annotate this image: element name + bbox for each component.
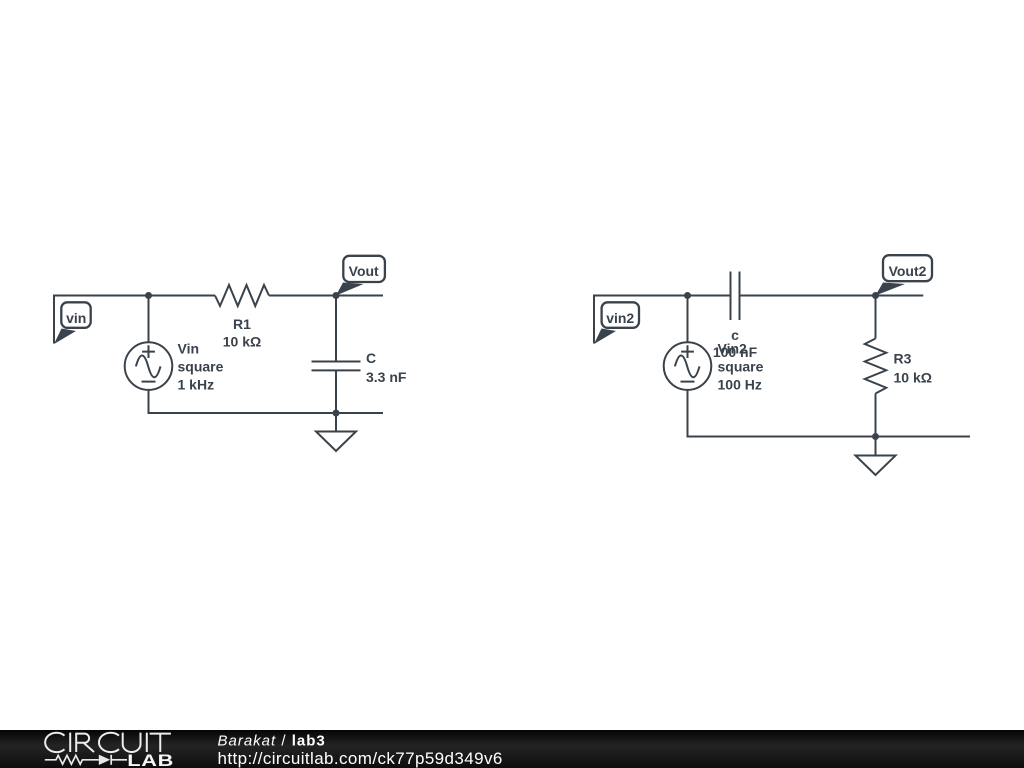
svg-text:Vin2: Vin2	[718, 340, 748, 356]
svg-text:1 kHz: 1 kHz	[178, 377, 215, 393]
svg-text:LAB: LAB	[127, 752, 174, 768]
capacitor C plates	[312, 362, 361, 371]
flag vin2 bubble	[602, 302, 639, 328]
ground right triangle	[856, 456, 896, 476]
logo letter U	[123, 733, 141, 752]
voltage source V2 plus sign	[681, 345, 694, 358]
footer bar	[0, 730, 1024, 768]
voltage source V2 sine wave	[675, 356, 700, 378]
resistor R3 top lead	[875, 296, 877, 339]
logo letter I2	[146, 733, 148, 752]
node junction Vout2 C2-R3	[872, 292, 879, 299]
logo letter C	[45, 733, 64, 752]
wire left circuit top left segment with vin stub	[54, 296, 215, 344]
logo diode cathode bar	[110, 755, 112, 765]
wire right circuit top left segment with vin2 stub	[594, 296, 731, 344]
logo diode triangle	[99, 755, 110, 765]
svg-text:100 Hz: 100 Hz	[718, 377, 762, 393]
svg-text:3.3 nF: 3.3 nF	[366, 369, 407, 385]
svg-text:vin2: vin2	[606, 310, 634, 326]
logo letter C2	[99, 733, 119, 752]
wire right circuit top right segment	[740, 295, 924, 297]
voltage source V1 minus sign	[142, 381, 156, 383]
node junction Vout R1-C	[333, 292, 340, 299]
voltage source V1 body	[125, 342, 173, 390]
logo letter T	[150, 734, 171, 752]
flag vin bubble	[61, 302, 90, 328]
voltage source V2 minus sign	[681, 381, 695, 383]
ground right stub	[875, 437, 877, 456]
svg-text:10 kΩ: 10 kΩ	[223, 334, 261, 350]
flag Vout bubble	[343, 256, 385, 282]
logo letter I	[69, 733, 71, 752]
wire left circuit bottom	[149, 390, 384, 413]
voltage source V2 body	[664, 342, 712, 390]
resistor R3 bottom lead	[875, 394, 877, 437]
logo wire to LAB	[111, 759, 127, 761]
node junction vin2-V2-C2	[684, 292, 691, 299]
wire left circuit top right segment	[269, 295, 383, 297]
ground left stub	[335, 413, 337, 432]
flag Vout2 pointer	[876, 283, 906, 296]
capacitor C bottom lead	[335, 370, 337, 413]
resistor R3	[865, 339, 887, 394]
logo resistor symbol	[45, 755, 99, 764]
ground left triangle	[316, 432, 356, 452]
svg-text:vin: vin	[66, 310, 86, 326]
voltage source V1 top lead	[148, 296, 150, 343]
flag vin2 pointer	[594, 329, 616, 345]
svg-text:R3: R3	[894, 351, 912, 367]
voltage source V2 top lead	[687, 296, 689, 343]
node junction bottom right ground	[872, 433, 879, 440]
voltage source V1 plus sign	[142, 345, 155, 358]
svg-text:Vout: Vout	[349, 263, 379, 279]
wire right circuit bottom	[688, 390, 971, 437]
svg-text:C: C	[366, 350, 376, 366]
node junction bottom left ground	[333, 410, 340, 417]
svg-text:http://circuitlab.com/ck77p59d: http://circuitlab.com/ck77p59d349v6	[218, 749, 503, 768]
svg-text:R1: R1	[233, 316, 251, 332]
flag Vout pointer	[336, 283, 364, 296]
svg-text:square: square	[178, 359, 224, 375]
svg-text:10 kΩ: 10 kΩ	[894, 370, 932, 386]
capacitor C2 plates	[731, 272, 740, 321]
svg-text:Vout2: Vout2	[889, 263, 927, 279]
resistor R1	[215, 285, 269, 306]
svg-text:Barakat / lab3: Barakat / lab3	[218, 732, 326, 749]
flag Vout2 bubble	[883, 255, 932, 281]
flag vin pointer	[54, 329, 76, 345]
capacitor C top lead	[335, 296, 337, 362]
logo letter R	[76, 734, 94, 752]
svg-text:Vin: Vin	[178, 340, 200, 356]
voltage source V1 sine wave	[136, 356, 161, 378]
node junction vin-V1-R1	[145, 292, 152, 299]
svg-text:square: square	[718, 359, 764, 375]
